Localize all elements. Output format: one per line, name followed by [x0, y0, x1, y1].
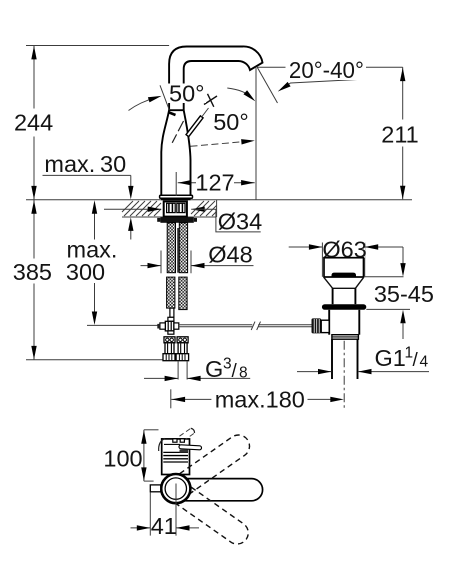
svg-text:max. 30: max. 30 — [44, 151, 126, 177]
svg-text:/: / — [232, 361, 238, 382]
hose end connector right (G3/8) — [177, 337, 188, 343]
deck hatch right — [191, 201, 217, 216]
drain body — [328, 310, 330, 335]
rubber gasket — [322, 304, 366, 310]
dimension 385 — [33, 200, 35, 259]
svg-text:3: 3 — [223, 356, 232, 373]
tailpipe — [331, 339, 333, 379]
spout tip extension line — [255, 67, 257, 200]
20-40 reference line — [257, 66, 286, 68]
svg-text:20°-40°: 20°-40° — [289, 57, 364, 83]
svg-text:211: 211 — [381, 121, 418, 147]
solid lever (top view) — [181, 447, 200, 448]
svg-text:max.180: max.180 — [215, 387, 305, 413]
svg-text:244: 244 — [14, 110, 53, 136]
flexible hose right (upper) — [179, 223, 187, 273]
neck — [332, 288, 334, 304]
joint tick — [169, 112, 176, 115]
top reference line — [26, 45, 169, 47]
spout capsule solid — [178, 479, 263, 501]
pop-up rod reference line (left of faucet) — [87, 324, 158, 326]
base gasket — [161, 198, 191, 200]
svg-text:G1: G1 — [375, 345, 406, 371]
flexible hose left (lower) — [167, 277, 175, 308]
hose end connector left (G3/8) — [164, 337, 175, 343]
spout (gooseneck) — [169, 46, 262, 110]
dimension D48 — [160, 251, 162, 274]
body top bumps — [173, 439, 177, 442]
rod break marks — [251, 322, 255, 330]
body (top view) — [162, 439, 190, 475]
svg-text:4: 4 — [420, 353, 429, 370]
deck reference line (counter top) — [26, 199, 412, 201]
pull rod between hoses — [177, 228, 179, 273]
flexible hose left (upper) — [167, 223, 175, 273]
dimension 244 — [33, 46, 35, 109]
dashed leader to spout line — [191, 141, 250, 146]
shank inner pipe right — [177, 203, 185, 212]
push cap — [332, 273, 357, 277]
D63 arrows — [289, 246, 323, 248]
deck bottom line — [122, 216, 217, 218]
svg-text:100: 100 — [103, 445, 142, 471]
svg-text:Ø48: Ø48 — [208, 242, 252, 268]
svg-text:/: / — [413, 350, 419, 371]
dimension 41 — [149, 493, 151, 536]
svg-text:Ø34: Ø34 — [218, 209, 262, 235]
spout capsule dashed down — [171, 482, 253, 549]
label 50deg (second) — [212, 112, 250, 132]
axis end cross — [204, 96, 217, 105]
pull rod stub (top view) — [150, 485, 160, 492]
dimension max. 300 — [94, 214, 96, 240]
hidden axis dashes in body — [172, 121, 183, 143]
shank inner pipe left — [167, 203, 176, 212]
50deg leader arrow (left) — [129, 97, 158, 110]
left top arc detail — [159, 438, 165, 451]
svg-text:127: 127 — [195, 170, 234, 196]
385 bottom reference line — [26, 359, 163, 361]
faucet base centerline — [175, 172, 177, 196]
body bottom rim — [332, 335, 359, 340]
20-40 leader with arrow — [282, 79, 363, 89]
handle axis line — [201, 108, 208, 118]
svg-text:50°: 50° — [169, 81, 205, 107]
svg-text:35-45: 35-45 — [374, 281, 434, 307]
label 50deg (handle) — [167, 84, 206, 104]
dimension 211 — [402, 67, 404, 119]
faucet body — [161, 110, 190, 195]
svg-text:41: 41 — [151, 513, 177, 539]
dimension 35-45 — [402, 247, 404, 264]
horizontal pop-up rod — [179, 324, 253, 326]
label 20-40 — [287, 60, 366, 81]
lever handle — [186, 116, 203, 137]
dimension G1 1/4 — [297, 371, 332, 373]
pull rod joint block — [168, 317, 174, 321]
tilted handle limit line — [160, 85, 169, 110]
dimension D34 arrows — [104, 208, 161, 210]
base circle — [161, 474, 190, 503]
D63 extension lines — [321, 243, 323, 277]
flexible hose right (lower) — [179, 277, 187, 310]
svg-text:50°: 50° — [213, 109, 249, 135]
dimension max.180 — [170, 389, 172, 408]
drain flange body — [324, 258, 364, 277]
dimension 127 — [178, 182, 255, 184]
deck right edge — [216, 200, 218, 217]
base flange — [160, 195, 193, 198]
mounting nut below deck — [160, 217, 193, 223]
pull rod lower stub — [170, 308, 174, 317]
svg-text:8: 8 — [239, 364, 248, 381]
swivel arc arrow — [227, 88, 251, 98]
dimension 100 — [144, 429, 159, 431]
pivot rod knob — [312, 318, 322, 333]
threaded shank through deck — [164, 201, 187, 216]
dimension G 3/8 — [177, 361, 179, 379]
deck hatch left — [122, 201, 161, 216]
svg-text:G: G — [205, 356, 223, 382]
20-40 angled face line — [257, 67, 277, 103]
svg-text:385: 385 — [13, 259, 52, 285]
flange skirt — [324, 278, 333, 289]
dashed lever position — [180, 428, 191, 436]
spout capsule dashed up — [172, 431, 254, 498]
drain centerline — [343, 341, 345, 408]
svg-text:300: 300 — [66, 259, 105, 285]
